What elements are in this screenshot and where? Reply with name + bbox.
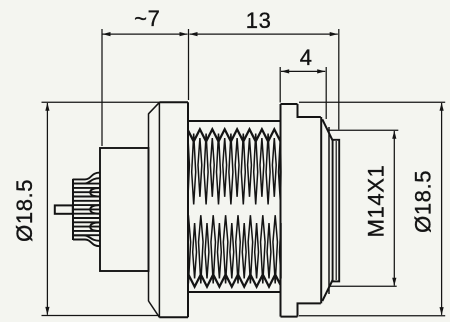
front chamfer bottom — [322, 280, 332, 301]
extension line M14X1 top (thread crest) — [327, 129, 398, 131]
dimension line 4 — [281, 70, 325, 72]
svg-text:~7: ~7 — [134, 6, 160, 31]
front flange face — [320, 117, 322, 303]
dimension line right Ø18.5 — [441, 103, 443, 315]
rear insulator block — [100, 148, 149, 271]
thread lower band: flank continuation needles — [193, 223, 197, 279]
front flange top step — [298, 104, 321, 117]
contact bottom flare curves — [73, 240, 100, 247]
dimension line 13 — [190, 33, 338, 35]
extension line x=338.8 (front face) — [338, 29, 340, 130]
svg-text:M14X1: M14X1 — [364, 165, 389, 238]
flange bottom flat — [159, 316, 188, 318]
thread lower band: lens needles — [188, 215, 191, 283]
front flange chamfer edge line — [328, 127, 330, 294]
extension line x=280.2 (thread end) — [279, 67, 281, 103]
extension line x=188.5 (flange front/thread start) — [188, 29, 190, 100]
front chamfer top — [322, 119, 332, 140]
extension line M14X1 bottom (thread crest) — [329, 285, 396, 287]
dimension line left Ø18.5 — [46, 103, 48, 315]
svg-text:4: 4 — [300, 45, 313, 70]
front rim inner edge line — [335, 141, 337, 280]
dimension line M14X1 — [393, 131, 395, 286]
flange top-left chamfer — [149, 102, 160, 114]
extension line top-left (flange top to left dim) — [42, 101, 160, 103]
arrowheads dim ~7 — [102, 32, 110, 36]
contact lamination lines — [73, 183, 100, 185]
svg-text:Ø18.5: Ø18.5 — [12, 179, 37, 242]
contact stack left bar — [72, 179, 74, 240]
thread bottom crest line — [188, 291, 281, 293]
extension line top-right — [299, 101, 445, 103]
arrowheads dim M14X1 — [392, 131, 396, 139]
extension line x=326.2 (front flange chamfer) — [325, 67, 327, 119]
arrowheads dim 13 — [189, 32, 197, 36]
flange top flat — [160, 101, 189, 103]
contact hook curves — [90, 188, 100, 197]
extension line bottom-left (flange bottom to left dim) — [42, 315, 161, 317]
front flange bottom flat — [281, 316, 298, 318]
extension line x=102 (rear block back) — [101, 29, 103, 146]
flange chamfer edge line — [158, 103, 160, 318]
front flange top flat — [281, 103, 298, 105]
center contact stub — [55, 205, 73, 213]
contact top flare curves — [73, 173, 100, 180]
thread end / front flange back edge — [280, 104, 282, 317]
dimension line ~7 — [103, 33, 188, 35]
arrowheads dim right Ø18.5 — [440, 103, 444, 111]
arrowheads dim 4 — [281, 69, 289, 73]
front rim (receptacle) — [333, 140, 340, 282]
flange bottom-left chamfer — [149, 301, 160, 317]
thread crest sawtooth lower — [188, 275, 280, 287]
svg-text:Ø18.5: Ø18.5 — [411, 170, 436, 233]
thread top crest line — [188, 120, 281, 122]
thread upper band: flank continuation needles — [188, 138, 189, 197]
arrowheads dim left Ø18.5 — [45, 103, 49, 111]
extension line bottom-right — [299, 315, 445, 317]
thread crest sawtooth upper — [188, 129, 280, 141]
thread upper band: lens needles — [192, 134, 196, 205]
flange left face — [148, 114, 150, 302]
front flange bottom step — [298, 303, 321, 316]
flange right edge / thread start — [187, 102, 189, 317]
svg-text:13: 13 — [246, 8, 272, 33]
